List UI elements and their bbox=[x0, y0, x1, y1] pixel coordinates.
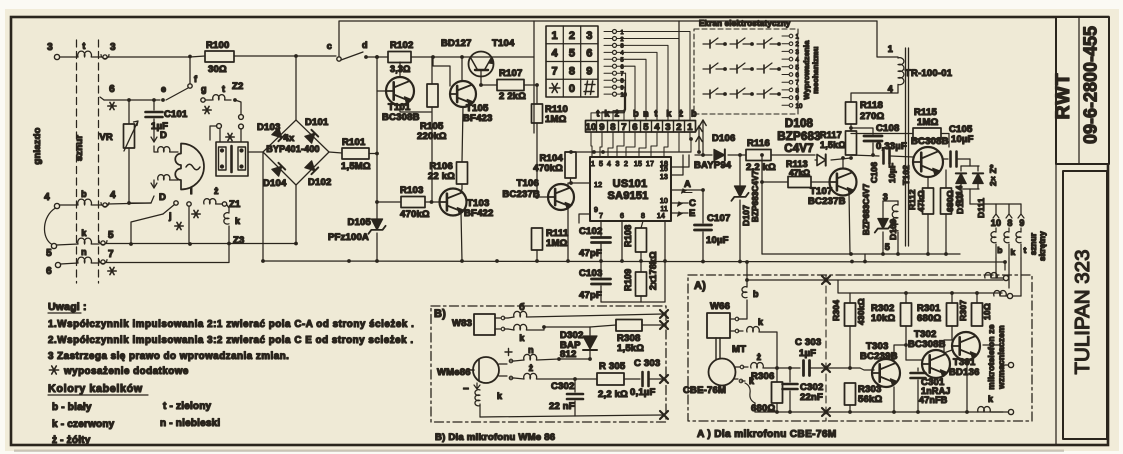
svg-text:7: 7 bbox=[552, 65, 558, 77]
mic top lead n bbox=[499, 361, 514, 364]
svg-text:n: n bbox=[81, 247, 87, 257]
svg-text:T102: T102 bbox=[901, 165, 911, 185]
svg-text:R107: R107 bbox=[499, 68, 523, 79]
asterisk row 6 bbox=[108, 102, 116, 109]
svg-text:A: A bbox=[684, 179, 691, 190]
resistor R103 bbox=[377, 201, 401, 203]
title block divider bbox=[1055, 17, 1057, 445]
capacitor C102 bbox=[600, 221, 602, 236]
svg-text:t - zielony: t - zielony bbox=[163, 401, 212, 412]
svg-text:BC237B: BC237B bbox=[808, 196, 846, 207]
svg-text:C107: C107 bbox=[707, 213, 731, 224]
svg-text:4: 4 bbox=[607, 161, 611, 168]
svg-text:mikrotelefon ze: mikrotelefon ze bbox=[986, 324, 996, 389]
svg-text:A): A) bbox=[694, 280, 706, 292]
svg-text:D109: D109 bbox=[888, 219, 898, 240]
svg-text:k: k bbox=[604, 109, 610, 119]
node C bbox=[671, 202, 688, 204]
svg-text:4: 4 bbox=[44, 192, 50, 203]
svg-text:6: 6 bbox=[620, 213, 624, 220]
svg-text:4: 4 bbox=[621, 51, 624, 57]
IC pin6 to bus bbox=[621, 221, 623, 261]
svg-text:Z3: Z3 bbox=[233, 235, 245, 246]
T105 collector stub bbox=[461, 57, 463, 81]
svg-text:1: 1 bbox=[621, 30, 624, 36]
keypad pin circles column bbox=[613, 30, 617, 34]
T106 collector to IC pin12 bbox=[568, 183, 590, 187]
svg-text:BD127: BD127 bbox=[441, 38, 472, 49]
receiver earpiece bbox=[175, 144, 204, 190]
svg-text:k: k bbox=[988, 394, 994, 404]
svg-text:812: 812 bbox=[560, 349, 576, 360]
svg-text:14: 14 bbox=[657, 213, 665, 220]
svg-text:k: k bbox=[81, 228, 87, 238]
coil k (Z3) bbox=[224, 213, 229, 224]
svg-text:j: j bbox=[168, 211, 172, 221]
diode D105 PFz100A bbox=[371, 219, 382, 230]
right lower bus y=254 bbox=[762, 253, 960, 255]
dashed line gniazdo/sznur left bbox=[76, 40, 78, 283]
svg-text:W66: W66 bbox=[710, 301, 730, 312]
svg-text:BAYP94: BAYP94 bbox=[694, 160, 732, 171]
T107 collector bbox=[842, 158, 844, 168]
svg-text:30Ω: 30Ω bbox=[208, 64, 227, 75]
svg-text:8: 8 bbox=[1007, 218, 1012, 228]
mechanism output pins bbox=[789, 34, 793, 38]
link hook row 5 bbox=[101, 241, 105, 245]
svg-text:2: 2 bbox=[569, 30, 575, 42]
svg-text:C101: C101 bbox=[164, 109, 188, 120]
svg-text:WMe86: WMe86 bbox=[437, 367, 471, 378]
svg-text:2 2kΩ: 2 2kΩ bbox=[499, 91, 526, 102]
svg-text:R307: R307 bbox=[958, 300, 968, 321]
svg-text:mechanizmu: mechanizmu bbox=[811, 46, 820, 94]
resistor R101 bbox=[329, 152, 342, 153]
cord coil b (row 4) bbox=[78, 199, 92, 205]
svg-text:sznur: sznur bbox=[1029, 233, 1038, 255]
svg-text:5: 5 bbox=[885, 242, 890, 252]
T302 collector/emitter bbox=[944, 340, 952, 353]
op-amp U1 US101 SA9151 bbox=[590, 157, 671, 221]
svg-text:T106: T106 bbox=[517, 178, 539, 189]
svg-text:C302: C302 bbox=[551, 381, 575, 392]
svg-text:17: 17 bbox=[646, 161, 654, 168]
svg-text:9: 9 bbox=[586, 65, 592, 77]
svg-text:Ekran elektrostatyczny: Ekran elektrostatyczny bbox=[699, 19, 791, 28]
svg-text:k: k bbox=[497, 391, 503, 401]
diode D108 bbox=[817, 154, 826, 165]
resistor R106 bbox=[457, 162, 468, 184]
svg-text:R102: R102 bbox=[390, 40, 414, 51]
T106 emitter down bbox=[567, 207, 569, 261]
resistor R305 bbox=[597, 373, 624, 385]
svg-text:680Ω: 680Ω bbox=[917, 313, 941, 324]
bottom scan shadow bbox=[14, 450, 1064, 452]
B box crossing marks bbox=[660, 310, 668, 318]
arc terminal4 to terminal5 bbox=[44, 208, 55, 245]
transistor T106 BC237B bbox=[537, 196, 548, 198]
dashed line gniazdo/sznur right bbox=[98, 40, 100, 283]
keypad box arrows bbox=[702, 120, 704, 155]
svg-text:10Ω: 10Ω bbox=[982, 303, 992, 320]
main bus y=261 bbox=[263, 261, 1005, 262]
svg-text:3: 3 bbox=[621, 44, 624, 50]
svg-text:D: D bbox=[160, 130, 167, 141]
T301 wires bbox=[966, 361, 968, 412]
svg-text:6: 6 bbox=[586, 48, 592, 60]
svg-text:3: 3 bbox=[796, 50, 800, 56]
svg-text:BC237B: BC237B bbox=[502, 189, 540, 200]
svg-text:270Ω: 270Ω bbox=[860, 111, 884, 122]
resistor R104 bbox=[565, 152, 576, 178]
svg-text:t: t bbox=[82, 41, 85, 51]
svg-text:8: 8 bbox=[610, 122, 615, 133]
svg-text:D106: D106 bbox=[712, 133, 736, 144]
svg-text:2: 2 bbox=[621, 37, 624, 43]
svg-text:D108: D108 bbox=[785, 118, 814, 130]
svg-text:15: 15 bbox=[634, 161, 642, 168]
W83 box bbox=[474, 314, 495, 335]
T105 emitter to R106 bbox=[462, 107, 463, 162]
svg-text:PFz100A: PFz100A bbox=[328, 232, 369, 243]
svg-text:2× Z*: 2× Z* bbox=[988, 164, 998, 186]
asterisk row 7 bbox=[108, 267, 116, 274]
row D106/R116 y=155 bbox=[695, 154, 712, 156]
svg-text:SA9151: SA9151 bbox=[608, 190, 649, 202]
svg-text:13: 13 bbox=[660, 174, 668, 181]
svg-text:16: 16 bbox=[660, 166, 668, 173]
resistor R113 bbox=[762, 181, 788, 183]
T104 emitter down to R107 bbox=[481, 70, 497, 85]
svg-text:10: 10 bbox=[660, 198, 668, 205]
strip to IC braid bbox=[591, 132, 592, 157]
svg-text:5: 5 bbox=[621, 58, 624, 64]
wire bridge left down to bus bbox=[262, 152, 264, 261]
svg-text:C106: C106 bbox=[869, 162, 879, 183]
W83 wires with hooks bbox=[495, 317, 508, 319]
A box x marks bbox=[822, 276, 830, 284]
junction row above IC bbox=[565, 151, 691, 153]
resistor R109 bbox=[640, 252, 642, 272]
svg-text:gniazdo: gniazdo bbox=[32, 127, 43, 164]
svg-text:c: c bbox=[327, 41, 332, 51]
svg-text:1µF: 1µF bbox=[799, 348, 816, 359]
bus end to b terminal bbox=[1004, 262, 1006, 270]
svg-text:5: 5 bbox=[643, 122, 649, 133]
link hook row 3 bbox=[103, 55, 107, 59]
A internal dashed divider bbox=[825, 275, 827, 421]
svg-text:k: k bbox=[235, 216, 241, 226]
svg-text:R118: R118 bbox=[860, 100, 883, 111]
capacitor C108 bbox=[851, 128, 873, 134]
zener D109 BZP683C4V7 bbox=[883, 200, 898, 202]
svg-text:MT: MT bbox=[732, 344, 746, 355]
svg-text:470kΩ: 470kΩ bbox=[533, 163, 563, 174]
svg-text:C103: C103 bbox=[579, 268, 603, 279]
B) dashed box bbox=[431, 306, 666, 422]
amplifier top wires bbox=[747, 279, 1003, 281]
resistor R114 bbox=[945, 170, 947, 188]
svg-text:CBE-76M: CBE-76M bbox=[683, 385, 726, 396]
title block TULIPAN 323 bbox=[1063, 171, 1107, 439]
svg-text:k: k bbox=[666, 109, 672, 119]
coil t (Z2 row) bbox=[213, 95, 225, 100]
T303 emitter bbox=[893, 387, 895, 412]
plus sign bbox=[505, 349, 512, 356]
transistor T101 BC308B bbox=[377, 90, 386, 92]
svg-text:22 kΩ: 22 kΩ bbox=[428, 171, 455, 182]
resistor R308 bbox=[590, 325, 616, 327]
resistor R110 bbox=[536, 85, 538, 104]
capacitor C105 bbox=[951, 152, 957, 167]
svg-text:47pF: 47pF bbox=[579, 290, 602, 301]
svg-text:wyposażenie dodatkowe: wyposażenie dodatkowe bbox=[63, 366, 189, 377]
svg-text:BD136: BD136 bbox=[949, 367, 980, 378]
svg-text:R114: R114 bbox=[954, 185, 964, 206]
wires cord to handset bbox=[995, 258, 997, 272]
svg-text:2: 2 bbox=[676, 122, 681, 133]
top long wire bbox=[339, 21, 877, 56]
svg-text:5: 5 bbox=[108, 230, 114, 241]
svg-text:R304: R304 bbox=[831, 300, 841, 321]
mic minus lead k bbox=[474, 383, 480, 389]
T105 base wire bbox=[433, 57, 450, 86]
svg-text:g: g bbox=[201, 84, 207, 94]
resistor R108 bbox=[641, 221, 643, 228]
svg-text:e: e bbox=[161, 84, 166, 94]
A) dashed box bbox=[688, 275, 1032, 421]
svg-text:US101: US101 bbox=[613, 178, 648, 190]
svg-text:t: t bbox=[1023, 245, 1026, 255]
switch j bbox=[174, 201, 178, 205]
svg-text:BYP401-400: BYP401-400 bbox=[266, 144, 320, 154]
svg-text:1: 1 bbox=[796, 35, 800, 41]
IC right pins 16/13 stubs bbox=[671, 155, 689, 167]
svg-text:C 303: C 303 bbox=[795, 337, 821, 348]
svg-text:9: 9 bbox=[621, 85, 624, 91]
svg-text:5: 5 bbox=[569, 48, 575, 60]
svg-text:3: 3 bbox=[47, 42, 53, 53]
resistor R107 bbox=[497, 80, 524, 91]
TR core lines bbox=[906, 48, 909, 246]
microphone WMe86 bbox=[473, 357, 499, 383]
svg-text:10: 10 bbox=[621, 92, 627, 98]
varistor VR bbox=[128, 100, 130, 124]
svg-text:4: 4 bbox=[552, 48, 559, 60]
resistor R118 bbox=[846, 102, 857, 124]
A bottom wire bbox=[755, 411, 1003, 413]
wire k from W66 bbox=[730, 330, 743, 332]
switch contact f (hook) bbox=[189, 56, 191, 84]
svg-text:k: k bbox=[1011, 247, 1016, 257]
svg-text:9: 9 bbox=[594, 207, 598, 214]
svg-text:R109: R109 bbox=[623, 269, 633, 291]
svg-text:VR: VR bbox=[99, 132, 113, 143]
link hook row 4 bbox=[103, 203, 107, 207]
svg-text:t: t bbox=[654, 109, 657, 119]
svg-text:6: 6 bbox=[621, 65, 624, 71]
relay box bbox=[216, 142, 248, 176]
svg-text:3: 3 bbox=[615, 161, 619, 168]
svg-text:1: 1 bbox=[888, 44, 893, 54]
resistor R100 bbox=[205, 51, 234, 62]
capacitor C106 bbox=[884, 149, 890, 164]
mechanism contacts grid bbox=[703, 38, 725, 44]
svg-text:2: 2 bbox=[624, 161, 628, 168]
bridge rectifier 4x BYP401-400 bbox=[263, 120, 329, 185]
svg-text:4: 4 bbox=[110, 190, 116, 201]
T103 collector bbox=[461, 189, 462, 192]
mic lead k lower bbox=[734, 379, 745, 381]
TR primary coil bbox=[898, 58, 904, 85]
svg-text:1,5kΩ: 1,5kΩ bbox=[617, 343, 644, 354]
svg-text:7: 7 bbox=[621, 122, 626, 133]
svg-text:0,1µF: 0,1µF bbox=[630, 387, 655, 398]
svg-text:D: D bbox=[159, 192, 166, 203]
svg-text:Kolory kabelków: Kolory kabelków bbox=[48, 383, 143, 395]
svg-text:RWT: RWT bbox=[1052, 72, 1074, 119]
svg-text:BZP683: BZP683 bbox=[777, 131, 820, 143]
W66 box bbox=[707, 313, 730, 338]
svg-text:b: b bbox=[753, 289, 759, 299]
svg-text:09-6-2800-455: 09-6-2800-455 bbox=[1081, 26, 1101, 144]
svg-text:0,33µF: 0,33µF bbox=[876, 141, 907, 152]
svg-text:n - niebieski: n - niebieski bbox=[160, 418, 220, 429]
svg-text:1,5kΩ: 1,5kΩ bbox=[820, 140, 846, 150]
contact Z1 bbox=[222, 202, 226, 206]
svg-text:7: 7 bbox=[796, 81, 800, 87]
svg-text:9: 9 bbox=[796, 96, 800, 102]
resistor R105 bbox=[427, 84, 438, 107]
svg-text:10kΩ: 10kΩ bbox=[871, 313, 895, 324]
mic lead z bbox=[735, 366, 748, 368]
link hook row 7 bbox=[101, 260, 105, 264]
svg-text:BC308B: BC308B bbox=[908, 339, 946, 350]
cord coil b to terminal bbox=[985, 272, 998, 278]
svg-text:D103: D103 bbox=[257, 122, 281, 133]
svg-text:2x178kΩ: 2x178kΩ bbox=[648, 251, 658, 290]
transistor T107 BC237B bbox=[830, 169, 857, 196]
T107 emitter bbox=[849, 192, 850, 254]
microphone CBE-76M bbox=[709, 359, 736, 386]
svg-text:n: n bbox=[643, 109, 649, 119]
svg-text:D104: D104 bbox=[263, 178, 287, 189]
wire b from W66 up bbox=[730, 318, 743, 320]
svg-text:7: 7 bbox=[599, 213, 603, 220]
cord coil t to terminal bbox=[994, 290, 1007, 296]
svg-text:10: 10 bbox=[796, 104, 804, 110]
svg-text:6: 6 bbox=[632, 122, 637, 133]
svg-text:10µF: 10µF bbox=[706, 235, 729, 246]
svg-text:D105: D105 bbox=[347, 217, 371, 228]
svg-text:k - czerwony: k - czerwony bbox=[52, 419, 115, 430]
svg-text:TR-100-01: TR-100-01 bbox=[905, 68, 953, 79]
svg-text:0: 0 bbox=[569, 83, 575, 95]
vertical x762 bbox=[761, 155, 763, 254]
svg-text:k: k bbox=[758, 317, 764, 327]
svg-text:8: 8 bbox=[796, 88, 800, 94]
svg-text:7: 7 bbox=[621, 72, 624, 78]
svg-text:R 305: R 305 bbox=[599, 361, 626, 372]
svg-text:47kΩ: 47kΩ bbox=[916, 190, 926, 212]
svg-text:b - biały: b - biały bbox=[52, 402, 92, 413]
svg-text:k: k bbox=[519, 333, 525, 343]
resistor R112 bbox=[927, 177, 929, 188]
svg-text:A ) Dla mikrofonu CBE-76M: A ) Dla mikrofonu CBE-76M bbox=[697, 429, 837, 440]
svg-text:2,2 kΩ: 2,2 kΩ bbox=[598, 389, 628, 400]
hook D lower bbox=[153, 180, 155, 188]
svg-text:ż: ż bbox=[214, 186, 219, 196]
svg-text:8: 8 bbox=[569, 65, 575, 77]
diodes 2xZ D110 D111 bbox=[969, 159, 971, 166]
connector strip 10..1 bbox=[586, 121, 696, 133]
svg-text:TULIPAN 323: TULIPAN 323 bbox=[1071, 250, 1094, 375]
T101 collector stub bbox=[399, 62, 401, 77]
receiver coil top lead bbox=[158, 147, 170, 152]
svg-text:4: 4 bbox=[654, 122, 660, 133]
capacitor C107 bbox=[702, 190, 704, 223]
svg-text:1.Współczynnik impulsowania 2:: 1.Współczynnik impulsowania 2:1 zwierać … bbox=[48, 319, 414, 330]
svg-text:Uwagi :: Uwagi : bbox=[48, 301, 87, 313]
node E bbox=[671, 212, 688, 214]
svg-text:5: 5 bbox=[599, 161, 603, 168]
svg-text:1MΩ: 1MΩ bbox=[917, 117, 939, 128]
wire row4 to receiver bbox=[129, 202, 151, 204]
keypad 4x3 bbox=[546, 26, 598, 97]
svg-text:d: d bbox=[362, 40, 368, 50]
svg-text:Wyprowadzenia: Wyprowadzenia bbox=[802, 40, 811, 100]
svg-text:BZP683C4V7: BZP683C4V7 bbox=[862, 183, 871, 235]
resistor R303 bbox=[845, 383, 856, 405]
svg-text:C102: C102 bbox=[579, 226, 603, 237]
wire bridge top bbox=[295, 56, 297, 120]
capacitor C103 bbox=[600, 261, 602, 277]
svg-text:Z1: Z1 bbox=[229, 199, 241, 210]
transistor T103 BF422 bbox=[440, 189, 467, 216]
svg-text:10: 10 bbox=[991, 218, 1001, 228]
svg-text:b: b bbox=[633, 109, 639, 119]
svg-text:R108: R108 bbox=[623, 225, 633, 247]
svg-text:C108: C108 bbox=[876, 123, 900, 134]
wire bridge bottom bbox=[295, 185, 297, 244]
node A bbox=[671, 189, 701, 191]
svg-text:8: 8 bbox=[641, 213, 645, 220]
svg-text:12: 12 bbox=[594, 182, 602, 189]
svg-text:5: 5 bbox=[796, 65, 800, 71]
svg-text:8: 8 bbox=[621, 78, 624, 84]
svg-text:4x: 4x bbox=[284, 133, 295, 144]
svg-text:C4V7: C4V7 bbox=[784, 143, 814, 155]
svg-text:2.Współczynnik impulsowania 3:: 2.Współczynnik impulsowania 3:2 zwierać … bbox=[48, 335, 414, 346]
bus tie x865 bbox=[864, 254, 866, 262]
resistor R304 bbox=[845, 303, 856, 326]
svg-text:R100: R100 bbox=[206, 40, 230, 51]
svg-text:B) Dla mikrofonu WMe 86: B) Dla mikrofonu WMe 86 bbox=[435, 432, 555, 443]
svg-text:BF423: BF423 bbox=[463, 113, 493, 124]
svg-text:b: b bbox=[81, 189, 87, 199]
transistor T301 BD136 bbox=[952, 332, 980, 360]
svg-text:3: 3 bbox=[665, 122, 670, 133]
svg-text:D111: D111 bbox=[976, 198, 986, 218]
svg-text:3 Zastrzega się prawo do wprow: 3 Zastrzega się prawo do wprowadzania zm… bbox=[48, 351, 289, 362]
svg-text:56kΩ: 56kΩ bbox=[858, 394, 882, 405]
svg-text:1MΩ: 1MΩ bbox=[546, 238, 568, 249]
cord coil n (row 7) bbox=[78, 257, 92, 263]
T101 emitter wire bbox=[400, 105, 431, 112]
svg-text:1: 1 bbox=[687, 122, 693, 133]
mic bottom lead z bbox=[499, 376, 514, 378]
svg-text:t: t bbox=[596, 109, 599, 119]
